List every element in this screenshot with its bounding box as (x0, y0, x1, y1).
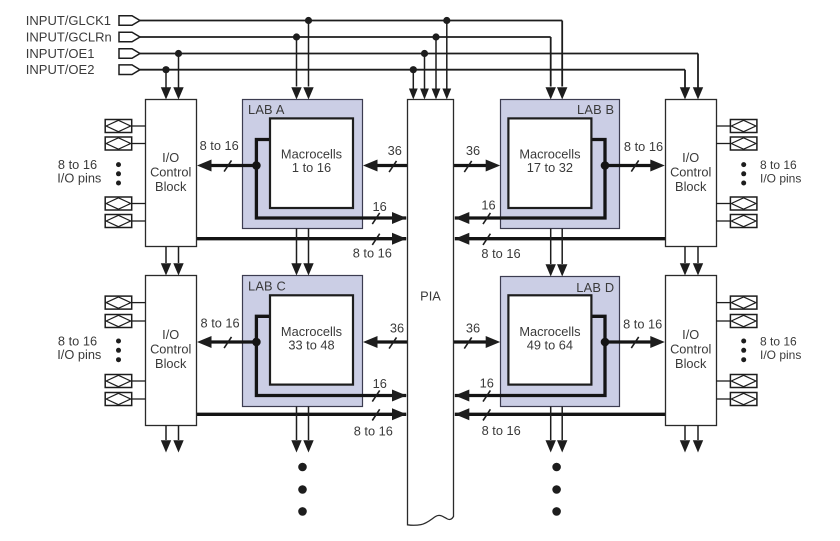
wire branch OE1 to PIA (424, 54, 426, 90)
svg-text:8 to 16: 8 to 16 (353, 246, 392, 261)
bus spine LAB C (256, 316, 406, 395)
wire branch GCLRn to PIA (435, 37, 437, 89)
arrowhead GCLRn into PIA (432, 89, 441, 100)
svg-text:8 to 16: 8 to 16 (482, 423, 521, 438)
slash on it (372, 409, 379, 420)
svg-text:8 to 16: 8 to 16 (760, 158, 797, 172)
wire branch OE2 to left I/O block (165, 70, 167, 88)
arrowhead LAB A 16 bus into PIA (392, 212, 407, 224)
wire LAB B to LAB D stub 2 (561, 229, 563, 265)
LAB A block (243, 100, 363, 229)
wire below LAB D stub 2 (561, 407, 563, 441)
wire below LAB C stub 1 (296, 407, 298, 441)
wire below LAB C stub 2 (308, 407, 310, 441)
wire LAB A to LAB C stub 1 (296, 229, 298, 264)
slash on LAB A 8to16 bus (224, 160, 231, 171)
junction dot LAB C spine (252, 338, 261, 347)
ellipsis dots below LAB C (298, 463, 307, 472)
pin symbol INPUT/GCLRn (119, 32, 140, 42)
arrowhead GLCK1 into LAB A (303, 87, 313, 99)
svg-text:16: 16 (373, 376, 387, 391)
junction dot LAB D spine (601, 338, 610, 347)
junction dot GLCK1/PIA (443, 17, 450, 24)
arrowhead GCLRn into LAB A (291, 87, 301, 99)
arrowhead OE2 into right I/O (680, 87, 690, 99)
bus LAB C to left I/O (8 to 16) (209, 340, 256, 343)
ellipsis dots right-top io pins (741, 162, 746, 167)
wire net OE1 drop to right I/O block (697, 54, 699, 88)
slash on LAB B 16 bus (483, 213, 490, 224)
svg-text:36: 36 (390, 321, 404, 336)
slash 36 LAB A (389, 161, 396, 172)
wire net OE2 drop to right I/O block (684, 70, 686, 88)
macrocells block 49 to 64 (508, 295, 591, 384)
arrowhead GLCK1 into PIA (442, 89, 451, 100)
svg-text:LAB C: LAB C (248, 278, 286, 293)
bus LAB B to right I/O (8 to 16) (605, 164, 652, 167)
io pin right-top 1 (730, 120, 757, 133)
wire branch OE1 to left I/O block (178, 54, 180, 89)
arrowhead GCLRn into LAB B (546, 87, 556, 99)
io pin left-bottom 3 (105, 375, 132, 388)
arrowhead LAB C 16 bus into PIA (392, 390, 407, 402)
junction dot OE1/PIA (421, 50, 428, 57)
svg-text:I/O pins: I/O pins (760, 348, 801, 362)
svg-text:16: 16 (480, 376, 494, 391)
arrowhead LAB D 16 bus into PIA (455, 390, 470, 402)
svg-text:LAB B: LAB B (577, 102, 614, 117)
bus right I/O to PIA row2 (8 to 16) (455, 413, 665, 416)
macrocells block 17 to 32 (508, 118, 591, 208)
io pin right-bottom 4 (730, 393, 757, 406)
arrowhead OE1 into PIA (420, 89, 429, 100)
arrowhead OE2 into PIA (409, 89, 418, 100)
wire left I/O top to bottom stub 1 (165, 247, 167, 264)
bus LAB A to left I/O (8 to 16) (209, 164, 256, 167)
svg-text:I/O: I/O (162, 327, 179, 342)
svg-text:Block: Block (155, 356, 187, 371)
I/O control block top-right (666, 100, 717, 247)
io pin left-top 3 (105, 197, 132, 210)
svg-text:PIA: PIA (420, 288, 441, 303)
svg-text:8 to 16: 8 to 16 (624, 139, 663, 154)
io pin right-top 2 (730, 137, 757, 150)
svg-text:17 to 32: 17 to 32 (527, 160, 573, 175)
wire right I/O top to bottom stub 1 (684, 247, 686, 264)
arrowhead into PIA left row2 (392, 408, 407, 420)
slash on LAB B 8to16 bus (631, 160, 638, 171)
slash on LAB A 16 bus (372, 213, 379, 224)
io pin right-top 3 (730, 197, 757, 210)
macrocells block 33 to 48 (270, 295, 353, 384)
bus PIA to LAB D (36) (454, 340, 487, 343)
wire left I/O top to bottom stub 2 (178, 247, 180, 264)
I/O control block top-left (146, 100, 197, 247)
svg-text:I/O: I/O (682, 327, 699, 342)
io pin right-bottom 3 (730, 375, 757, 388)
wire below left I/O stub 1 (165, 426, 167, 441)
wire below left I/O stub 2 (178, 426, 180, 441)
svg-text:INPUT/GLCK1: INPUT/GLCK1 (26, 13, 111, 28)
wire net GCLRn drop to LAB B (550, 37, 552, 87)
io pin left-top 2 (105, 137, 132, 150)
junction dot OE1/left I/O (175, 50, 182, 57)
junction dot GCLRn/PIA (432, 33, 439, 40)
slash 36 LAB B (464, 161, 471, 172)
wire LAB B to LAB D stub 1 (550, 229, 552, 265)
svg-text:16: 16 (372, 199, 386, 214)
arrowhead GLCK1 into LAB B (557, 87, 567, 99)
svg-text:INPUT/OE1: INPUT/OE1 (26, 46, 95, 61)
slash 36 LAB D (464, 337, 471, 348)
svg-text:LAB A: LAB A (248, 102, 285, 117)
arrowhead into PIA right row1 (455, 233, 470, 245)
slash on it (372, 234, 379, 245)
wire LAB A to LAB C stub 2 (308, 229, 310, 264)
bus right I/O to PIA row1 (8 to 16) (455, 237, 665, 240)
svg-text:8 to 16: 8 to 16 (760, 334, 797, 348)
svg-text:36: 36 (466, 143, 480, 158)
arrowhead OE1 into left I/O (173, 87, 183, 99)
wire below right I/O stub 2 (697, 426, 699, 441)
junction dot OE2/PIA (410, 66, 417, 73)
LAB B block (501, 100, 620, 229)
junction dot LAB A spine (252, 161, 261, 170)
wire below right I/O stub 1 (684, 426, 686, 441)
bus left I/O to PIA row1 (8 to 16) (196, 237, 406, 240)
ellipsis dots left-bottom io pins (116, 339, 121, 344)
svg-text:I/O: I/O (682, 150, 699, 165)
bus LAB D to right I/O (8 to 16) (605, 340, 652, 343)
svg-text:Control: Control (670, 165, 711, 180)
I/O control block bottom-left (146, 276, 197, 426)
svg-text:Control: Control (150, 342, 191, 357)
svg-text:1 to 16: 1 to 16 (292, 160, 331, 175)
wire net GLCK1 drop to LAB B (561, 21, 563, 87)
bus spine LAB D (455, 316, 605, 395)
wire branch OE2 to PIA (412, 70, 414, 89)
bus spine LAB B (455, 140, 605, 219)
io pin right-top 4 (730, 215, 757, 228)
wire right I/O top to bottom stub 2 (697, 247, 699, 264)
bus spine LAB A (256, 140, 406, 219)
svg-text:Block: Block (675, 179, 707, 194)
svg-text:LAB D: LAB D (576, 280, 614, 295)
arrowhead 36 into LAB D (486, 336, 501, 348)
svg-text:I/O: I/O (162, 150, 179, 165)
arrowhead OE1 into right I/O (693, 87, 703, 99)
pin symbol INPUT/OE1 (119, 49, 140, 59)
slash on LAB C 16 bus (372, 390, 379, 401)
arrowhead into PIA left row1 (392, 233, 407, 245)
arrowhead 36 into LAB C (363, 336, 378, 348)
svg-text:INPUT/GCLRn: INPUT/GCLRn (26, 29, 112, 44)
arrowhead bus into right I/O bottom (650, 336, 665, 348)
arrowhead bus into left I/O bottom (197, 336, 212, 348)
io pin left-top 4 (105, 215, 132, 228)
junction dot GLCK1/LAB A (305, 17, 312, 24)
io pin left-bottom 2 (105, 315, 132, 328)
macrocells block 1 to 16 (270, 118, 353, 208)
svg-text:36: 36 (466, 321, 480, 336)
bus PIA to LAB C (36) (376, 340, 408, 343)
svg-text:8 to 16: 8 to 16 (200, 138, 239, 153)
wire branch GCLRn to LAB A (296, 37, 298, 87)
io pin right-bottom 1 (730, 296, 757, 309)
ellipsis dots below LAB D (552, 463, 561, 472)
PIA bar with torn bottom edge (408, 100, 454, 526)
svg-text:36: 36 (388, 143, 402, 158)
svg-text:8 to 16: 8 to 16 (481, 246, 520, 261)
io pin left-bottom 4 (105, 393, 132, 406)
svg-text:33 to 48: 33 to 48 (288, 337, 334, 352)
svg-text:8 to 16: 8 to 16 (623, 317, 662, 332)
bus left I/O to PIA row2 (8 to 16) (196, 413, 406, 416)
wire branch GLCK1 to PIA (446, 21, 448, 90)
arrowhead 36 into LAB B (486, 160, 501, 172)
svg-text:16: 16 (481, 198, 495, 213)
LAB D block (501, 277, 620, 407)
I/O control block bottom-right (666, 276, 717, 426)
svg-text:8 to 16: 8 to 16 (201, 316, 240, 331)
junction dot OE2/left I/O (162, 66, 169, 73)
wire below LAB D stub 1 (550, 407, 552, 441)
svg-text:Block: Block (155, 179, 187, 194)
svg-text:49 to 64: 49 to 64 (527, 337, 573, 352)
junction dot GCLRn/LAB A (293, 33, 300, 40)
wire net GLCK1 horizontal (140, 20, 562, 22)
bus PIA to LAB B (36) (454, 164, 487, 167)
arrowhead 36 into LAB A (363, 160, 378, 172)
bus PIA to LAB A (36) (376, 164, 408, 167)
io pin left-bottom 1 (105, 296, 132, 309)
arrowhead into PIA right row2 (455, 408, 470, 420)
svg-text:I/O pins: I/O pins (57, 170, 101, 185)
wire net OE2 horizontal (140, 69, 685, 71)
io pin right-bottom 2 (730, 315, 757, 328)
wire net OE1 horizontal (140, 53, 698, 55)
svg-text:Control: Control (670, 342, 711, 357)
LAB C block (243, 276, 363, 407)
slash on LAB C 8to16 bus (224, 337, 231, 348)
slash on it (483, 409, 490, 420)
wire net GCLRn horizontal (140, 36, 551, 38)
arrowhead OE2 into left I/O (161, 87, 171, 99)
svg-text:8 to 16: 8 to 16 (354, 424, 393, 439)
pin symbol INPUT/GLCK1 (119, 16, 140, 26)
slash on LAB D 8to16 bus (631, 337, 638, 348)
arrowhead bus into left I/O (197, 160, 212, 172)
slash 36 LAB C (389, 337, 396, 348)
ellipsis dots right-bottom io pins (741, 339, 746, 344)
arrowhead LAB B 16 bus into PIA (455, 212, 470, 224)
svg-text:I/O pins: I/O pins (760, 171, 801, 185)
junction dot LAB B spine (601, 161, 610, 170)
io pin left-top 1 (105, 120, 132, 133)
pin symbol INPUT/OE2 (119, 65, 140, 75)
ellipsis dots left-top io pins (116, 162, 121, 167)
svg-text:INPUT/OE2: INPUT/OE2 (26, 62, 95, 77)
arrowhead bus into right I/O (650, 160, 665, 172)
slash on it (483, 234, 490, 245)
svg-text:Control: Control (150, 165, 191, 180)
wire branch GLCK1 to LAB A (308, 21, 310, 87)
slash on LAB D 16 bus (483, 390, 490, 401)
svg-text:Block: Block (675, 356, 707, 371)
svg-text:I/O pins: I/O pins (57, 347, 101, 362)
